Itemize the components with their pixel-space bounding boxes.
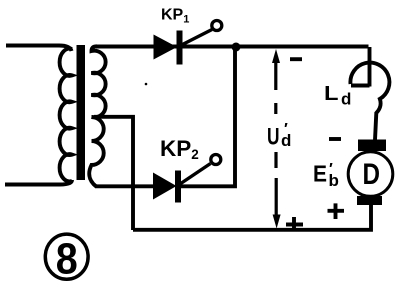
wire top net (secondary top to Ld corner) xyxy=(95,45,369,49)
svg-text:d: d xyxy=(281,131,291,150)
inductor Ld riser xyxy=(368,47,372,87)
secondary winding W2 lower half xyxy=(89,117,103,186)
thyristor KP2 anode triangle xyxy=(153,173,177,200)
svg-text:8: 8 xyxy=(56,236,78,284)
inductor Ld loop xyxy=(350,63,389,140)
svg-text:KP1: KP1 xyxy=(161,7,189,26)
thyristor KP1 gate terminal circle xyxy=(212,21,222,31)
svg-text:b: b xyxy=(329,171,339,190)
inductor Ld stub xyxy=(351,84,370,88)
wire bottom net xyxy=(133,205,371,230)
svg-text:KP2: KP2 xyxy=(160,136,199,162)
Ud dashed measure line segments xyxy=(274,57,278,216)
thyristor KP1 anode triangle xyxy=(154,35,178,60)
thyristor KP2 cathode bar xyxy=(175,171,181,203)
wire KP2 anode xyxy=(95,184,154,188)
svg-text:L: L xyxy=(324,82,339,105)
wire KP2 cathode riser xyxy=(180,47,235,186)
thyristor KP1 cathode bar xyxy=(177,31,183,65)
svg-text:U: U xyxy=(267,124,280,151)
thyristor KP2 gate lead xyxy=(180,164,211,185)
motor armature circle xyxy=(348,152,393,197)
thyristor KP1 gate lead xyxy=(182,30,213,46)
node junction dot xyxy=(232,43,241,52)
plus sign near motor xyxy=(328,203,345,219)
minus sign top xyxy=(290,57,302,61)
wire secondary mid-tap xyxy=(94,117,133,230)
plus sign bottom xyxy=(286,217,303,231)
wire primary bottom lead xyxy=(5,180,72,185)
motor bottom brush xyxy=(357,196,382,205)
transformer core xyxy=(77,45,86,180)
Ud dashed measure line top arrowhead xyxy=(272,49,280,63)
svg-text:D: D xyxy=(363,158,381,191)
primary winding W1 xyxy=(60,49,72,182)
svg-text:d: d xyxy=(341,90,351,109)
speck xyxy=(145,83,148,86)
thyristor KP2 gate terminal circle xyxy=(211,155,221,165)
svg-text:E: E xyxy=(313,161,327,187)
Ud dashed measure line bottom arrowhead xyxy=(273,215,281,229)
motor top brush xyxy=(358,140,386,152)
figure number circle xyxy=(45,234,88,279)
wire primary top lead xyxy=(6,46,72,52)
minus sign near motor xyxy=(329,137,341,141)
secondary winding W2 upper half xyxy=(92,46,106,117)
